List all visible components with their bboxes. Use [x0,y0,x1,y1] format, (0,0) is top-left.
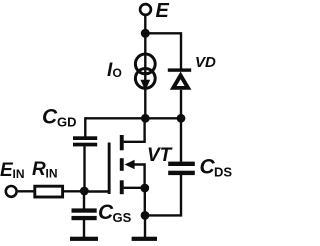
transistor VT channel segments [120,135,124,150]
current source IO circles [135,54,155,88]
wire center column through current source [144,33,146,118]
wire source to bottom node [144,188,146,215]
svg-text:R: R [32,159,46,180]
wire bottom node to right column [145,175,181,215]
capacitor CGD riser bottom [83,146,85,191]
capacitor CDS riser [180,118,182,162]
svg-text:VD: VD [195,54,216,71]
capacitor CGS ground stem [83,220,85,237]
node source junction [140,184,149,193]
node top junction [141,29,150,38]
svg-text:DS: DS [214,165,232,180]
wire EIN to RIN [18,190,34,192]
wire drain row [85,117,181,119]
node drain junction [141,114,150,123]
svg-text:IN: IN [46,167,58,181]
wire RIN to gate node [63,190,84,192]
svg-text:GS: GS [113,210,132,225]
ground bar [132,237,157,241]
capacitor CGD riser top [84,117,86,136]
current source IO arrowhead [140,80,150,91]
diode VD triangle [170,72,192,90]
wire gate node to gate [84,190,109,192]
transistor VT source lead [124,187,145,189]
terminal E [140,4,151,15]
transistor VT body arrow [125,160,135,170]
ground bar under CGS [70,237,98,241]
capacitor CGS plates [72,208,97,212]
transistor VT gate bar [108,143,111,195]
node gate junction [80,187,89,196]
wire E-terminal to top node [144,16,146,33]
svg-text:E: E [156,0,170,22]
capacitor CDS plates [168,162,195,166]
svg-text:GD: GD [57,115,77,130]
node right column junction [177,114,186,123]
diode VD cathode bar [168,68,191,71]
ground stem [144,215,146,237]
svg-text:C: C [42,106,58,129]
terminal EIN [6,186,17,197]
wire diode anode down to right node [180,90,182,119]
capacitor CGD plates [73,136,97,140]
svg-text:IN: IN [13,167,25,181]
capacitor CGS riser [83,191,85,209]
transistor VT drain lead [124,119,145,142]
node bottom junction [141,211,150,220]
wire top node to right column [145,33,181,69]
resistor RIN [35,186,63,197]
svg-text:O: O [113,66,122,80]
